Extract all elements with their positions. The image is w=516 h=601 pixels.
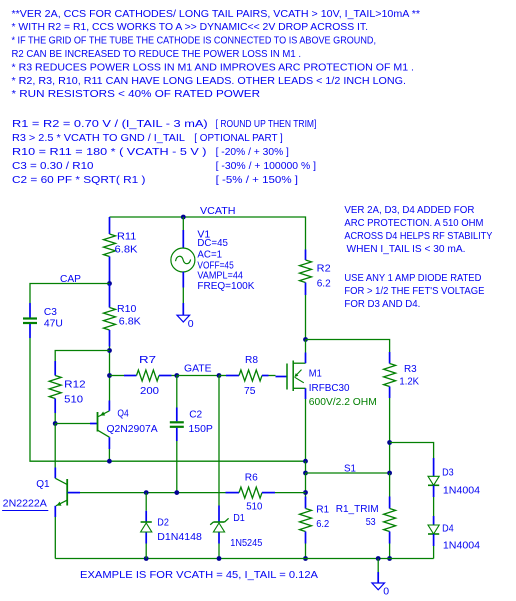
resistor R10 [104, 284, 141, 347]
junction M1 drain node [303, 337, 308, 342]
svg-text:6.2: 6.2 [317, 278, 331, 290]
junction Q4 collector rail [107, 459, 112, 464]
wire R1 to rail [305, 544, 307, 559]
wire R3 to S1 [389, 398, 391, 473]
resistor R3 [384, 352, 419, 398]
svg-text:2N2222A: 2N2222A [3, 497, 47, 509]
junction S1 right [387, 471, 392, 476]
mosfet M1 [276, 353, 377, 409]
diode D2 [141, 493, 202, 559]
svg-text:200: 200 [140, 385, 159, 397]
svg-text:R2 CAN BE INCREASED TO REDUCE: R2 CAN BE INCREASED TO REDUCE THE POWER … [12, 48, 302, 60]
svg-text:510: 510 [246, 501, 262, 513]
svg-text:C3: C3 [44, 306, 57, 318]
ground 0 under V1 [177, 303, 194, 330]
svg-text:D4: D4 [442, 522, 454, 534]
wire C2 bottom [176, 441, 178, 493]
svg-text:C3 = 0.30 / R10: C3 = 0.30 / R10 [12, 160, 94, 172]
svg-text:1N4004: 1N4004 [443, 484, 480, 496]
svg-text:ARC PROTECTION. A 510 OHM: ARC PROTECTION. A 510 OHM [344, 217, 483, 229]
junction S1 left [303, 471, 308, 476]
wire R12 node to Q1 collector [54, 424, 56, 468]
wire S1 [306, 472, 390, 474]
svg-text:FOR D3 AND D4.: FOR D3 AND D4. [344, 298, 420, 310]
svg-text:C2: C2 [189, 409, 202, 421]
svg-text:1.2K: 1.2K [399, 376, 419, 388]
svg-text:EXAMPLE IS FOR VCATH = 45, I_T: EXAMPLE IS FOR VCATH = 45, I_TAIL = 0.12… [80, 569, 318, 581]
junction D1 rail [217, 556, 222, 561]
svg-text:Q4: Q4 [117, 408, 128, 420]
svg-text:53: 53 [366, 516, 376, 528]
junction R6 node [303, 490, 308, 495]
svg-text:600V/2.2 OHM: 600V/2.2 OHM [309, 396, 377, 408]
junction D2 top [144, 490, 149, 495]
junction R12 branch [107, 348, 112, 353]
svg-text:WHEN I_TAIL IS < 30 mA.: WHEN I_TAIL IS < 30 mA. [347, 243, 466, 255]
wire drain node to R3 [306, 340, 390, 353]
svg-text:R2: R2 [317, 263, 331, 275]
transistor Q4 [90, 401, 158, 450]
svg-text:Q1: Q1 [36, 478, 50, 490]
svg-text:150P: 150P [189, 423, 213, 435]
svg-text:510: 510 [64, 394, 83, 406]
resistor R11 [104, 217, 138, 284]
resistor R8 [219, 354, 269, 397]
svg-text:R12: R12 [64, 379, 86, 391]
svg-text:* WITH R2 = R1, CCS WORKS TO A: * WITH R2 = R1, CCS WORKS TO A >> DYNAMI… [12, 21, 369, 33]
svg-text:1N4004: 1N4004 [443, 539, 480, 551]
svg-text:GATE: GATE [184, 363, 212, 375]
wire R2 to drain node [305, 295, 307, 340]
resistor R6 [226, 472, 276, 513]
svg-text:VCATH: VCATH [200, 205, 236, 217]
svg-text:0: 0 [188, 318, 194, 330]
wire Q4 base [55, 423, 90, 425]
junction R1_TRIM rail [387, 556, 392, 561]
svg-text:FOR > 1/2 THE FET'S VOLTAGE: FOR > 1/2 THE FET'S VOLTAGE [344, 285, 484, 297]
wire Q1 base to R6 [80, 492, 226, 494]
svg-text:D1: D1 [233, 512, 245, 524]
svg-text:D1N4148: D1N4148 [157, 531, 202, 543]
wire GATE to D1 [218, 376, 220, 506]
wire V1 to ground [182, 288, 184, 304]
svg-text:6.8K: 6.8K [119, 316, 141, 328]
wire R7 branch [110, 375, 125, 377]
design equations block [12, 118, 316, 186]
svg-text:R3: R3 [404, 363, 417, 375]
svg-text:* RUN RESISTORS < 40% OF RATED: * RUN RESISTORS < 40% OF RATED POWER [12, 88, 261, 100]
svg-text:R8: R8 [245, 354, 258, 366]
junction GATE left [174, 373, 179, 378]
svg-text:R1 = R2 = 0.70 V / (I_TAIL - 3: R1 = R2 = 0.70 V / (I_TAIL - 3 mA) [12, 118, 208, 130]
svg-text:6.8K: 6.8K [115, 244, 138, 256]
ground 0 bottom [372, 572, 389, 598]
svg-text:D2: D2 [157, 516, 169, 528]
junction D3 branch [387, 440, 392, 445]
svg-text:USE ANY 1 AMP DIODE RATED: USE ANY 1 AMP DIODE RATED [344, 272, 481, 284]
svg-text:R6: R6 [245, 472, 258, 484]
junction D2 rail [144, 556, 149, 561]
svg-text:* IF THE GRID OF THE TUBE THE: * IF THE GRID OF THE TUBE THE CATHODE IS… [12, 35, 377, 47]
svg-text:FREQ=100K: FREQ=100K [197, 280, 254, 292]
svg-text:R7: R7 [139, 354, 156, 366]
svg-text:75: 75 [244, 385, 256, 397]
junction V1 top [181, 215, 186, 220]
junction C2 bottom [174, 490, 179, 495]
resistor R7 [124, 354, 177, 397]
wire ground stem [377, 559, 379, 573]
wire Q4 collector [108, 449, 110, 461]
svg-text:[ OPTIONAL PART ]: [ OPTIONAL PART ] [194, 132, 283, 144]
wire S1 to R1 [305, 473, 307, 497]
wire D1 to rail [218, 544, 220, 559]
svg-text:* R3 REDUCES POWER LOSS IN M1: * R3 REDUCES POWER LOSS IN M1 AND IMPROV… [12, 61, 415, 73]
svg-text:[ -20% / + 30% ]: [ -20% / + 30% ] [216, 146, 289, 158]
svg-text:D3: D3 [442, 467, 454, 479]
notes block top [12, 8, 421, 100]
wire D3 to D4 [433, 497, 435, 516]
svg-text:[ ROUND UP THEN TRIM]: [ ROUND UP THEN TRIM] [216, 118, 317, 130]
junction node CAP [107, 281, 112, 286]
junction Q4 base node [53, 421, 58, 426]
wire D4 to rail [433, 546, 435, 559]
junction ground rail [376, 556, 381, 561]
svg-text:1N5245: 1N5245 [230, 537, 262, 549]
diode D4 [428, 516, 480, 551]
diode D3 [428, 458, 480, 497]
svg-text:R1: R1 [316, 503, 329, 515]
svg-text:6.2: 6.2 [316, 518, 329, 530]
svg-text:Q2N2907A: Q2N2907A [107, 423, 158, 435]
note diode rating [344, 272, 484, 310]
voltage source V1 [171, 228, 255, 291]
svg-text:**VER 2A, CCS FOR CATHODES/ L: **VER 2A, CCS FOR CATHODES/ LONG TAIL PA… [12, 8, 421, 20]
transistor Q1 [2, 468, 80, 518]
svg-text:CAP: CAP [60, 273, 81, 285]
junction R7 branch [107, 373, 112, 378]
wire D3 branch [390, 443, 434, 459]
wire GATE [177, 375, 219, 377]
svg-text:ACROSS D4 HELPS RF STABILITY: ACROSS D4 HELPS RF STABILITY [344, 230, 492, 242]
wire S1 to R1_TRIM [389, 473, 391, 497]
svg-text:[ -5% / + 150% ]: [ -5% / + 150% ] [216, 174, 298, 186]
wire R1_TRIM to rail [389, 544, 391, 559]
resistor R1_TRIM [336, 497, 396, 544]
svg-text:M1: M1 [309, 368, 322, 380]
note arc protection [344, 204, 492, 255]
capacitor C3 [23, 303, 63, 338]
junction R1 rail [303, 556, 308, 561]
svg-text:R1_TRIM: R1_TRIM [336, 503, 379, 515]
svg-text:* R2, R3, R10, R11 CAN HAVE LO: * R2, R3, R10, R11 CAN HAVE LONG LEADS. … [12, 75, 407, 87]
resistor R1 [300, 497, 330, 544]
wire M1 source [305, 399, 307, 461]
svg-text:VER 2A, D3, D4 ADDED FOR: VER 2A, D3, D4 ADDED FOR [344, 204, 474, 216]
svg-text:C2 = 60 PF * SQRT( R1 ): C2 = 60 PF * SQRT( R1 ) [12, 174, 145, 186]
wire R10 to Q4 emitter [109, 347, 111, 401]
wire R6 to source node [275, 492, 306, 494]
capacitor C2 [170, 408, 213, 442]
svg-text:R10: R10 [117, 303, 136, 315]
wire R12 branch [55, 351, 109, 362]
wire M1 drain [305, 340, 307, 353]
wire VCATH rail [110, 217, 306, 250]
wire bottom rail [55, 558, 433, 560]
wire Q1 emitter to rail [54, 517, 56, 559]
wire CAP [30, 284, 110, 304]
svg-text:DC=45: DC=45 [197, 237, 228, 249]
junction GATE right [217, 373, 222, 378]
junction M1 source node [303, 459, 308, 464]
wire C2 top [176, 376, 178, 408]
wire R8 to M1 gate [269, 375, 276, 377]
wire C3 to M1 source rail [30, 338, 306, 461]
svg-text:R11: R11 [117, 231, 136, 243]
resistor R2 [300, 250, 331, 296]
zener diode D1 [210, 506, 262, 549]
resistor R12 [49, 361, 86, 424]
svg-text:R3 > 2.5 * VCATH TO GND / I_TA: R3 > 2.5 * VCATH TO GND / I_TAIL [12, 132, 185, 144]
wire source to S1 [305, 461, 307, 473]
svg-text:[ -30% / + 100000 % ]: [ -30% / + 100000 % ] [216, 160, 316, 172]
svg-text:IRFBC30: IRFBC30 [309, 382, 350, 394]
svg-text:47U: 47U [44, 318, 63, 330]
svg-text:0: 0 [383, 586, 389, 598]
wire V1 top [182, 217, 184, 230]
svg-text:R10 = R11 = 180 * ( VCATH - 5: R10 = R11 = 180 * ( VCATH - 5 V ) [12, 146, 207, 158]
